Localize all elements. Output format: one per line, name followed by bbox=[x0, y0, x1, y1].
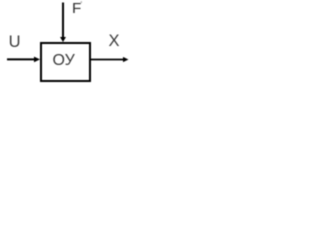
svg-text:ОУ: ОУ bbox=[52, 52, 75, 69]
svg-text:F: F bbox=[72, 0, 81, 17]
svg-text:X: X bbox=[108, 32, 119, 50]
svg-text:U: U bbox=[9, 33, 21, 51]
